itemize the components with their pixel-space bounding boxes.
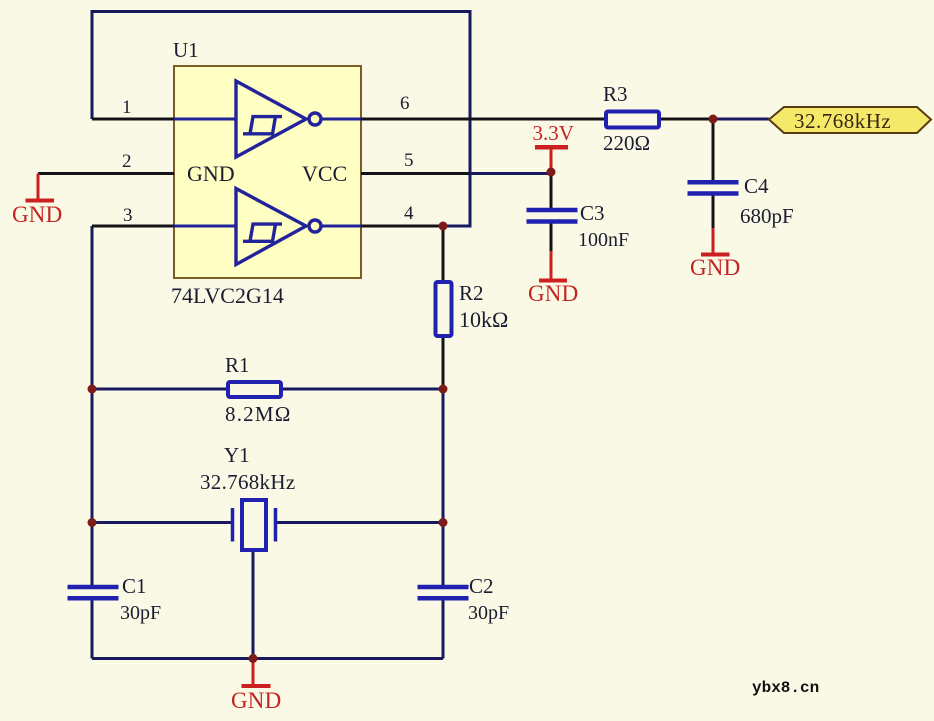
svg-text:4: 4 (404, 203, 414, 224)
svg-text:C3: C3 (580, 201, 605, 225)
svg-text:GND: GND (690, 255, 740, 280)
svg-text:ybx8.cn: ybx8.cn (752, 679, 819, 697)
svg-text:GND: GND (12, 202, 62, 227)
svg-text:Y1: Y1 (224, 443, 250, 467)
svg-text:32.768kHz: 32.768kHz (200, 470, 295, 494)
svg-text:680pF: 680pF (740, 204, 794, 228)
svg-text:GND: GND (231, 688, 281, 713)
svg-text:220Ω: 220Ω (603, 131, 650, 155)
svg-text:R2: R2 (459, 281, 484, 305)
svg-text:GND: GND (187, 161, 235, 186)
svg-text:GND: GND (528, 281, 578, 306)
svg-text:3.3V: 3.3V (533, 121, 574, 145)
svg-text:32.768kHz: 32.768kHz (794, 109, 891, 133)
svg-text:1: 1 (122, 97, 132, 118)
svg-text:30pF: 30pF (468, 602, 509, 624)
svg-text:100nF: 100nF (578, 229, 629, 251)
svg-text:C1: C1 (122, 574, 147, 598)
svg-text:C2: C2 (469, 574, 494, 598)
svg-text:C4: C4 (744, 174, 769, 198)
svg-text:2: 2 (122, 151, 132, 172)
svg-text:VCC: VCC (302, 161, 347, 186)
svg-text:30pF: 30pF (120, 602, 161, 624)
svg-text:6: 6 (400, 93, 410, 114)
svg-text:5: 5 (404, 150, 414, 171)
svg-text:R1: R1 (225, 353, 250, 377)
svg-text:3: 3 (123, 205, 133, 226)
svg-text:10kΩ: 10kΩ (459, 307, 508, 332)
svg-text:R3: R3 (603, 82, 628, 106)
svg-text:U1: U1 (173, 38, 199, 62)
svg-text:8.2MΩ: 8.2MΩ (225, 402, 292, 426)
svg-text:74LVC2G14: 74LVC2G14 (171, 283, 284, 308)
